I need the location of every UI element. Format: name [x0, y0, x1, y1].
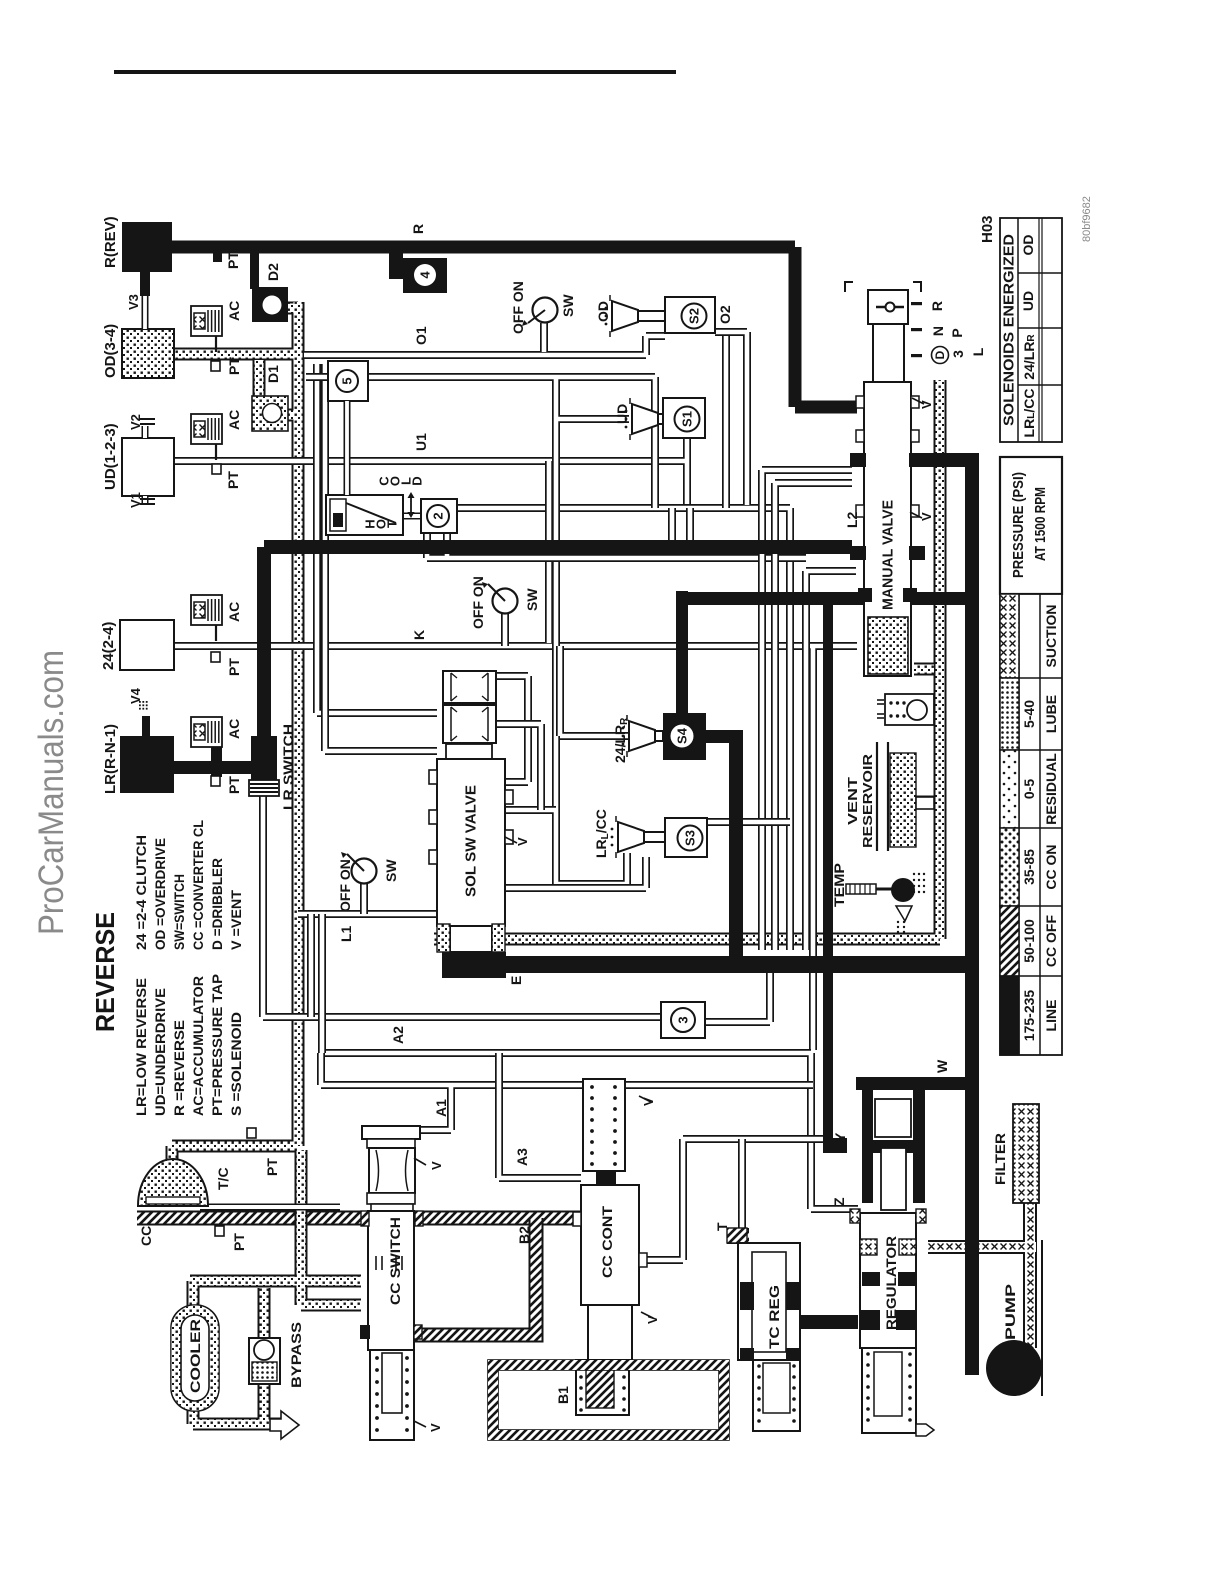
svg-text:LR=LOW REVERSE: LR=LOW REVERSE	[133, 978, 149, 1116]
svg-text:CC: CC	[138, 1226, 154, 1246]
svg-text:L2: L2	[844, 511, 860, 528]
svg-text:V4: V4	[128, 687, 143, 704]
svg-text:RESIDUAL: RESIDUAL	[1043, 753, 1059, 825]
svg-text:OD: OD	[595, 301, 611, 322]
svg-text:V1: V1	[128, 492, 143, 508]
svg-text:80bf9682: 80bf9682	[1081, 196, 1093, 242]
svg-text:OD =OVERDRIVE: OD =OVERDRIVE	[152, 838, 168, 950]
svg-text:V2: V2	[128, 414, 143, 430]
svg-text:PT: PT	[225, 251, 241, 269]
svg-text:W: W	[934, 1059, 950, 1073]
svg-text:4: 4	[418, 271, 433, 279]
svg-text:V: V	[645, 1315, 660, 1324]
svg-text:ProCarManuals.com: ProCarManuals.com	[32, 650, 71, 935]
svg-text:REVERSE: REVERSE	[90, 912, 120, 1032]
svg-text:Z: Z	[831, 1197, 847, 1206]
svg-text:T/C: T/C	[215, 1167, 231, 1190]
svg-text:AC: AC	[226, 602, 242, 622]
svg-text:3: 3	[950, 350, 966, 358]
svg-text:V: V	[428, 1423, 443, 1432]
svg-text:CC OFF: CC OFF	[1043, 915, 1059, 968]
svg-text:RESERVOIR: RESERVOIR	[860, 753, 875, 848]
svg-text:SUCTION: SUCTION	[1043, 605, 1059, 668]
svg-text:OD(3-4): OD(3-4)	[102, 324, 119, 378]
svg-text:2: 2	[431, 512, 446, 519]
svg-text:PT: PT	[225, 471, 241, 489]
svg-text:SW: SW	[524, 588, 540, 611]
svg-text:SOLENOIDS ENERGIZED: SOLENOIDS ENERGIZED	[1001, 234, 1018, 426]
svg-text:S =SOLENOID: S =SOLENOID	[228, 1012, 244, 1116]
svg-text:PUMP: PUMP	[1002, 1284, 1018, 1340]
svg-text:LR SWITCH: LR SWITCH	[280, 724, 296, 810]
svg-text:COOLER: COOLER	[187, 1319, 203, 1393]
svg-text:LUBE: LUBE	[1043, 695, 1059, 733]
svg-text:LRL/CC: LRL/CC	[593, 809, 611, 858]
svg-text:BYPASS: BYPASS	[288, 1322, 304, 1388]
svg-text:P: P	[949, 328, 965, 337]
svg-text:3: 3	[676, 1016, 691, 1023]
svg-text:UD=UNDERDRIVE: UD=UNDERDRIVE	[152, 988, 168, 1116]
svg-text:OFF ON: OFF ON	[337, 859, 353, 912]
svg-text:PT=PRESSURE TAP: PT=PRESSURE TAP	[209, 974, 225, 1116]
svg-text:A3: A3	[514, 1148, 530, 1166]
svg-text:R: R	[929, 301, 945, 311]
svg-text:CC CONT: CC CONT	[599, 1206, 615, 1278]
svg-text:VENT: VENT	[845, 777, 860, 825]
svg-text:D =DRIBBLER: D =DRIBBLER	[209, 858, 225, 950]
svg-text:A1: A1	[433, 1099, 449, 1117]
svg-text:SW=SWITCH: SW=SWITCH	[171, 874, 187, 950]
svg-text:LINE: LINE	[1043, 1000, 1059, 1032]
svg-text:N: N	[930, 326, 946, 336]
svg-text:Y: Y	[832, 1132, 848, 1142]
svg-text:V: V	[429, 1161, 444, 1170]
svg-text:OFF ON: OFF ON	[510, 281, 526, 334]
svg-text:OD: OD	[1020, 235, 1036, 256]
svg-text:LR(R-N-1): LR(R-N-1)	[102, 724, 119, 794]
svg-text:S3: S3	[683, 830, 698, 846]
svg-text:PT: PT	[226, 658, 242, 676]
svg-text:V: V	[641, 1097, 656, 1106]
svg-text:D1: D1	[265, 365, 281, 383]
svg-text:S1: S1	[680, 411, 695, 427]
svg-text:O1: O1	[413, 326, 429, 345]
svg-text:SW: SW	[560, 294, 576, 317]
svg-text:T: T	[714, 1222, 730, 1231]
svg-text:PT: PT	[226, 357, 242, 375]
svg-text:V: V	[919, 400, 934, 409]
svg-text:TC REG: TC REG	[766, 1285, 782, 1349]
svg-text:D2: D2	[265, 263, 281, 281]
svg-text:V: V	[515, 837, 530, 846]
svg-text:SOL SW VALVE: SOL SW VALVE	[463, 785, 480, 897]
svg-text:50-100: 50-100	[1021, 919, 1037, 963]
svg-text:O2: O2	[717, 305, 733, 324]
svg-text:AC=ACCUMULATOR: AC=ACCUMULATOR	[190, 976, 206, 1116]
svg-text:R: R	[410, 224, 426, 234]
svg-text:S4: S4	[675, 727, 690, 744]
svg-text:UD: UD	[1020, 291, 1036, 311]
svg-text:REGULATOR: REGULATOR	[883, 1236, 899, 1330]
svg-text:AT 1500 RPM: AT 1500 RPM	[1033, 487, 1049, 561]
svg-text:AC: AC	[226, 719, 242, 739]
svg-text:CC =CONVERTER CL: CC =CONVERTER CL	[190, 820, 206, 950]
svg-text:0-5: 0-5	[1021, 779, 1037, 799]
svg-text:LRL/CC: LRL/CC	[1021, 389, 1037, 438]
svg-text:UD: UD	[614, 404, 630, 424]
svg-text:TEMP: TEMP	[831, 863, 847, 907]
svg-text:V: V	[919, 512, 934, 521]
svg-text:35-85: 35-85	[1021, 849, 1037, 885]
svg-text:R =REVERSE: R =REVERSE	[171, 1020, 187, 1116]
svg-text:V =VENT: V =VENT	[228, 890, 244, 950]
svg-text:PT: PT	[226, 776, 242, 794]
svg-text:SW: SW	[383, 859, 399, 882]
svg-text:D: D	[410, 476, 425, 485]
svg-text:5: 5	[340, 377, 355, 384]
svg-text:AC: AC	[226, 410, 242, 430]
svg-text:H03: H03	[979, 215, 996, 243]
svg-text:5-40: 5-40	[1021, 700, 1037, 728]
svg-text:L1: L1	[338, 925, 354, 942]
svg-text:L: L	[970, 347, 986, 356]
svg-text:B1: B1	[555, 1386, 571, 1404]
svg-text:A2: A2	[390, 1026, 406, 1044]
svg-text:V3: V3	[126, 294, 141, 310]
svg-text:R(REV): R(REV)	[102, 216, 119, 268]
svg-text:MANUAL VALVE: MANUAL VALVE	[880, 500, 897, 610]
svg-text:U1: U1	[413, 433, 429, 451]
svg-text:AC: AC	[226, 301, 242, 321]
svg-text:UD(1-2-3): UD(1-2-3)	[102, 423, 119, 490]
svg-text:PT: PT	[264, 1158, 280, 1176]
svg-text:PT: PT	[231, 1233, 247, 1251]
svg-text:175-235: 175-235	[1021, 990, 1037, 1042]
svg-text:CC SWITCH: CC SWITCH	[387, 1217, 403, 1305]
svg-text:K: K	[411, 630, 427, 640]
svg-text:S2: S2	[687, 308, 702, 324]
svg-text:E: E	[508, 976, 524, 985]
svg-text:PRESSURE (PSI): PRESSURE (PSI)	[1011, 472, 1027, 578]
svg-text:T: T	[385, 520, 400, 528]
svg-text:FILTER: FILTER	[992, 1133, 1008, 1185]
svg-text:24(2-4): 24(2-4)	[100, 622, 117, 670]
svg-text:CC ON: CC ON	[1043, 844, 1059, 889]
svg-text:D: D	[933, 350, 947, 359]
svg-text:B2: B2	[516, 1226, 532, 1244]
svg-text:24 =2-4 CLUTCH: 24 =2-4 CLUTCH	[133, 835, 149, 950]
